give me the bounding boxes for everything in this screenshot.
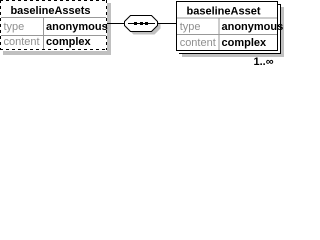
- title baselineAssets: [10, 5, 90, 17]
- label type (right box): [180, 21, 201, 33]
- wire from baselineAssets to sequence compositor: [107, 23, 125, 24]
- title separator left box: [1, 17, 106, 18]
- sequence dot 3: [145, 22, 148, 25]
- title baselineAsset: [187, 6, 261, 18]
- svg-text:baselineAssets: baselineAssets: [10, 5, 90, 17]
- sequence inner line: [128, 23, 155, 24]
- row separator right box: [177, 34, 277, 35]
- column divider left box: [43, 18, 44, 49]
- svg-text:complex: complex: [222, 37, 268, 49]
- svg-text:content: content: [4, 36, 40, 48]
- cardinality 1..infinity: [254, 56, 274, 68]
- sequence dot 1: [134, 22, 137, 25]
- title separator right box: [177, 18, 277, 19]
- element box baselineAssets shadow: [3, 3, 111, 55]
- label type (left box): [4, 21, 25, 33]
- value complex (right box): [222, 37, 268, 49]
- column divider right box: [219, 18, 220, 50]
- element box baselineAssets (dashed border): [0, 0, 107, 51]
- sequence dot 2: [140, 22, 143, 25]
- svg-text:content: content: [180, 37, 216, 49]
- wire from sequence compositor to baselineAsset: [158, 23, 176, 24]
- label content (right box): [180, 37, 216, 49]
- element box baselineAsset shadow: [182, 7, 284, 57]
- svg-text:complex: complex: [46, 36, 92, 48]
- element box baselineAsset back copy (multiple occurrence): [179, 4, 281, 54]
- row separator left box: [1, 35, 106, 36]
- svg-text:baselineAsset: baselineAsset: [187, 6, 261, 18]
- sequence compositor shadow: [128, 19, 161, 35]
- value anonymous (left box): [46, 21, 108, 33]
- svg-text:type: type: [4, 21, 25, 33]
- svg-text:1..∞: 1..∞: [254, 56, 274, 68]
- sequence compositor octagon: [125, 16, 158, 32]
- svg-text:type: type: [180, 21, 201, 33]
- element box baselineAsset front box: [176, 1, 278, 51]
- svg-text:anonymous: anonymous: [46, 21, 108, 33]
- value anonymous (right box): [222, 21, 284, 33]
- svg-text:anonymous: anonymous: [222, 21, 284, 33]
- label content (left box): [4, 36, 40, 48]
- value complex (left box): [46, 36, 92, 48]
